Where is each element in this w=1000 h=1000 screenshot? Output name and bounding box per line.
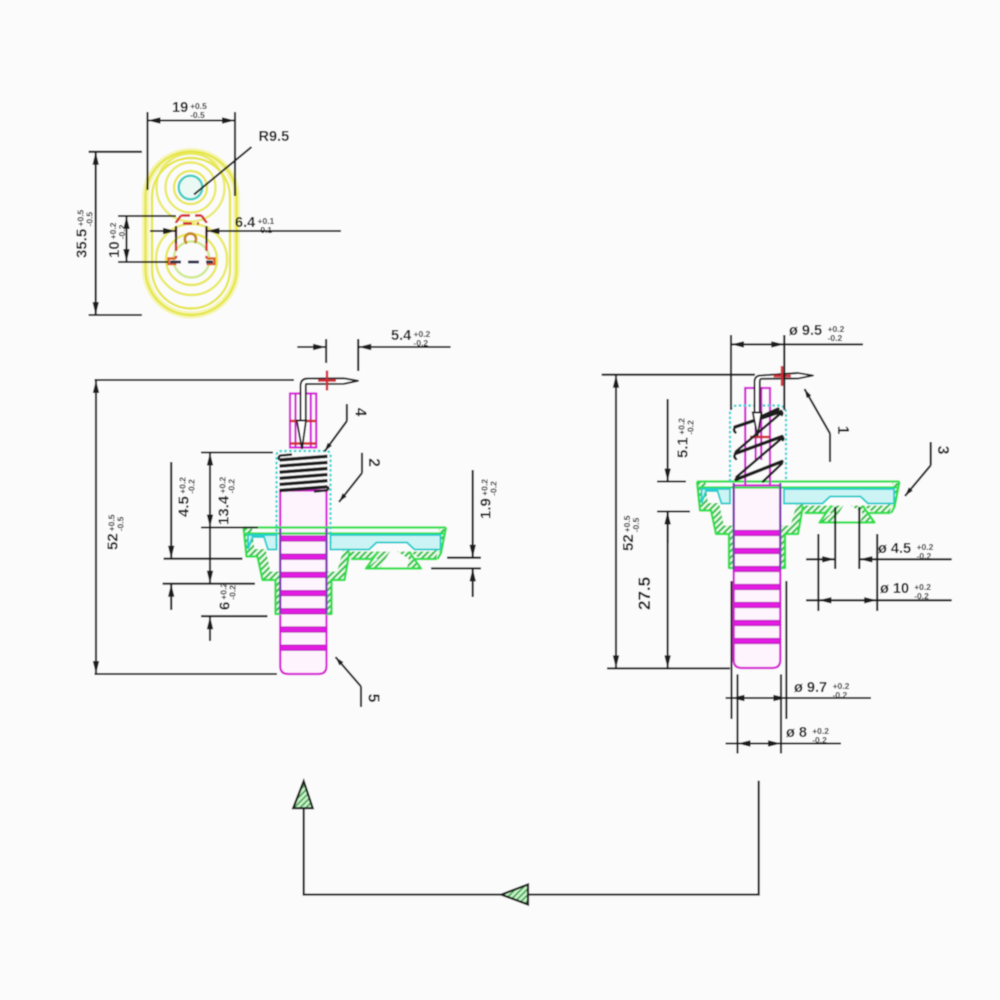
left fig: terminal block (magenta) bbox=[290, 394, 316, 448]
balloon 5 (ceramic body) with leader bbox=[360, 687, 362, 708]
flange right collar outline bbox=[327, 552, 350, 614]
flange lip bottom edges bbox=[351, 558, 372, 560]
flange hatched tab right side bbox=[851, 506, 875, 523]
svg-text:6: 6 bbox=[217, 602, 234, 610]
flange hatched tab right side bbox=[397, 552, 421, 569]
top view: electrode bracket (red dashed) bbox=[176, 216, 207, 259]
right fig: wire crimp needle bbox=[753, 413, 762, 437]
dimension dia 9.7 +0.2/-0.2 (body OD) bbox=[730, 581, 732, 719]
svg-text:4: 4 bbox=[352, 408, 369, 417]
right fig: wire electrode (black) with bent tip bbox=[755, 373, 814, 412]
svg-text:-0.2: -0.2 bbox=[488, 481, 498, 496]
svg-text:R9.5: R9.5 bbox=[259, 129, 290, 145]
svg-text:10: 10 bbox=[106, 241, 123, 258]
flange left wall outline bbox=[244, 528, 281, 615]
assembly flow path bbox=[304, 781, 759, 895]
svg-text:-0.2: -0.2 bbox=[227, 585, 237, 600]
svg-text:-0.5: -0.5 bbox=[190, 110, 205, 120]
right fig: insulator cap (cyan dashed) bbox=[730, 406, 786, 482]
flange plate tray (cyan) right part bbox=[331, 535, 441, 550]
balloon 3 (mounting flange) with leader bbox=[930, 442, 932, 465]
left fig: red cross mark on wire bbox=[318, 371, 336, 391]
top view: center hook arc (olive) bbox=[185, 233, 196, 243]
dimension 5.4 +0.2/-0.2 (wire tip length) bbox=[325, 339, 327, 363]
svg-text:-0.5: -0.5 bbox=[631, 517, 641, 532]
left fig: wire electrode (black) with bent tip bbox=[301, 378, 359, 420]
flange hatched wall/collar (left side) bbox=[244, 528, 281, 615]
svg-text:13.4: 13.4 bbox=[216, 495, 233, 525]
flange hatched right wall bbox=[434, 529, 446, 553]
top view: mounting plate outline (yellow stadium) bbox=[146, 152, 237, 316]
flange right end outline bbox=[891, 482, 900, 514]
flange hatched lip (right of tab) bbox=[863, 506, 892, 514]
left fig: wire crimp point (needle) bbox=[297, 421, 306, 450]
svg-text:35.5: 35.5 bbox=[74, 229, 91, 258]
left fig: insulator cap (cyan dashed) bbox=[277, 451, 331, 546]
dimension 10 +0.2/-0.2 (bracket height) bbox=[118, 215, 176, 217]
flange right end outline bbox=[438, 528, 447, 560]
flange hatched collar (right side) bbox=[327, 549, 353, 614]
svg-text:-0.2: -0.2 bbox=[226, 479, 236, 494]
flange hatched tab left side bbox=[366, 552, 390, 569]
svg-text:52: 52 bbox=[620, 534, 637, 551]
balloon 4 (spring) with leader bbox=[346, 404, 348, 421]
dimension 13.4 +0.2/-0.2 (spring section) bbox=[201, 451, 273, 453]
flow arrow up (green) bbox=[293, 781, 313, 808]
flange tab outline bbox=[366, 552, 421, 569]
svg-text:2: 2 bbox=[365, 458, 382, 467]
svg-text:ø 9.7: ø 9.7 bbox=[794, 680, 827, 696]
svg-text:-0.2: -0.2 bbox=[414, 338, 429, 348]
dimension 19 +0.5/-0.5 (top width) bbox=[146, 112, 148, 190]
dimension 1.9 +0.2/-0.2 (tab depth) bbox=[447, 557, 481, 559]
dimension dia 10 +0.2/-0.2 (tab width) bbox=[817, 534, 819, 611]
svg-text:1: 1 bbox=[834, 426, 851, 435]
flow arrow left (green) bbox=[501, 885, 528, 905]
svg-text:ø 9.5: ø 9.5 bbox=[789, 323, 822, 339]
svg-text:-0.2: -0.2 bbox=[685, 420, 695, 435]
dimension 52 +0.5/-0.5 (right fig total height) bbox=[602, 374, 755, 376]
dimension 4.5 +0.2/-0.2 (flange lip depth) bbox=[164, 558, 243, 560]
svg-text:ø 10: ø 10 bbox=[880, 581, 909, 597]
flange right collar outline bbox=[780, 506, 803, 568]
flange lip bottom edges bbox=[805, 512, 826, 514]
flange hatched wall/collar (left side) bbox=[697, 482, 734, 569]
right fig: body edges through flange (dark) bbox=[733, 483, 735, 570]
dimension dia 4.5 +0.2/-0.2 (tab hole) bbox=[834, 507, 836, 569]
flange top plate lines (green) bbox=[244, 526, 447, 528]
top view: lower hole rings (yellow/green) bbox=[156, 224, 227, 295]
dimension 5.1 +0.2/-0.2 (flange depth) bbox=[657, 480, 686, 482]
top view: bracket feet (orange) bbox=[169, 259, 215, 265]
top view: bracket bottom dashed centerline (dark) bbox=[170, 261, 213, 264]
svg-text:-0.1: -0.1 bbox=[258, 225, 273, 235]
svg-text:-0.2: -0.2 bbox=[812, 735, 827, 745]
svg-text:-0.2: -0.2 bbox=[117, 224, 127, 239]
svg-text:5: 5 bbox=[365, 694, 382, 703]
svg-text:5.1: 5.1 bbox=[675, 437, 692, 458]
svg-text:4.5: 4.5 bbox=[176, 496, 193, 517]
flange hatched tab left side bbox=[820, 506, 844, 523]
dimension dia 9.5 +0.2/-0.2 (cap OD) bbox=[730, 335, 732, 410]
right fig: spring coil extended (black) bbox=[734, 409, 783, 482]
balloon 2 (insulator cap) with leader bbox=[361, 453, 363, 473]
left fig: terminal crimp lines (red) bbox=[290, 420, 316, 422]
flange hatched collar (right side) bbox=[781, 503, 807, 568]
top view: upper hole (cyan circle) bbox=[179, 176, 203, 200]
flange hatched lip (left of tab) bbox=[348, 552, 378, 560]
svg-text:3: 3 bbox=[934, 446, 951, 455]
flange hatched lip (right of tab) bbox=[409, 552, 438, 560]
flange tab outline bbox=[820, 506, 875, 523]
svg-text:ø 8: ø 8 bbox=[786, 725, 807, 741]
dimension 35.5 +0.5/-0.5 (left height) bbox=[89, 151, 143, 153]
svg-text:ø 4.5: ø 4.5 bbox=[878, 541, 911, 557]
dimension 52 +0.5/-0.5 (left fig total height) bbox=[95, 379, 295, 381]
flange plate tray (cyan) left part bbox=[248, 535, 277, 550]
flange plate tray (cyan) right part bbox=[784, 489, 894, 504]
left fig: body edges through flange (dark) bbox=[279, 528, 281, 614]
dimension R9.5 with leader bbox=[194, 147, 252, 195]
svg-text:6.4: 6.4 bbox=[235, 215, 255, 231]
right fig: center rod (magenta) bbox=[745, 388, 770, 486]
right fig: red crimp marks bbox=[753, 415, 771, 417]
svg-text:1.9: 1.9 bbox=[478, 498, 495, 519]
svg-text:19: 19 bbox=[172, 100, 188, 116]
right fig: ceramic body (magenta, ribbed) bbox=[734, 486, 781, 669]
flange hatched lip (left of tab) bbox=[802, 506, 832, 514]
flange plate tray (cyan) left part bbox=[702, 489, 731, 504]
dimension dia 8 +0.2/-0.2 (body tip OD) bbox=[736, 674, 738, 753]
dimension 6 +0.2/-0.2 (collar step depth) bbox=[201, 615, 268, 617]
top view: upper hole rings (yellow) bbox=[157, 154, 225, 222]
flange top plate lines (green) bbox=[697, 480, 900, 482]
balloon 1 (wire electrode) with leader bbox=[829, 434, 831, 463]
right fig: red cross mark on wire bbox=[774, 366, 792, 386]
left fig: ceramic body (magenta, ribbed) bbox=[280, 491, 326, 675]
svg-text:-0.2: -0.2 bbox=[828, 333, 843, 343]
flange hatched right wall bbox=[888, 483, 900, 507]
svg-text:27.5: 27.5 bbox=[635, 577, 654, 610]
dimension 27.5 (body below flange) bbox=[667, 512, 669, 669]
svg-text:-0.2: -0.2 bbox=[833, 690, 848, 700]
svg-text:-0.5: -0.5 bbox=[84, 212, 94, 227]
svg-text:-0.5: -0.5 bbox=[115, 516, 125, 531]
flange left wall outline bbox=[697, 482, 734, 569]
svg-text:-0.2: -0.2 bbox=[186, 479, 196, 494]
svg-text:5.4: 5.4 bbox=[391, 328, 411, 344]
dimension 6.4 +0.1/-0.1 (bracket width) bbox=[175, 226, 177, 243]
svg-text:-0.2: -0.2 bbox=[914, 591, 929, 601]
svg-text:-0.2: -0.2 bbox=[917, 551, 932, 561]
left fig: spring coil (black) bbox=[279, 455, 329, 492]
svg-text:52: 52 bbox=[105, 533, 122, 550]
